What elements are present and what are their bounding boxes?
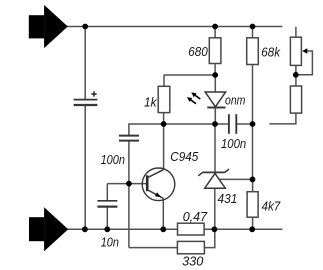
- node pot wiper junction: [293, 72, 299, 78]
- wire mid rail right part: [236, 123, 252, 125]
- svg-text:C945: C945: [170, 149, 199, 164]
- wire 680 top lead: [214, 27, 216, 38]
- wire emitter vertical: [162, 198, 164, 229]
- svg-text:100n: 100n: [221, 136, 246, 151]
- wire top rail: [67, 26, 283, 28]
- wire 4k7 top lead: [252, 179, 254, 191]
- wire bottom rail left segment: [67, 228, 178, 230]
- capacitor C4 10n plates: [97, 201, 117, 207]
- resistor 680: [209, 38, 221, 64]
- node TL431 ref divider: [250, 177, 256, 183]
- wire 68k top lead: [252, 27, 254, 38]
- wire 1k top lead: [163, 75, 165, 86]
- wire C4 10n bottom lead: [106, 207, 108, 230]
- wire mid rail left part with turn down to C2: [129, 124, 229, 136]
- wire 68k bottom lead down to ref node: [252, 65, 254, 180]
- resistor lower right body: [290, 86, 301, 113]
- node 4k7 bottom: [249, 226, 255, 232]
- resistor 68k: [247, 38, 259, 65]
- wire 680 bottom lead: [214, 64, 216, 76]
- node 680 top: [212, 24, 218, 30]
- node emitter bottom: [160, 226, 166, 232]
- svg-text:680: 680: [188, 44, 208, 59]
- wire collector vertical: [163, 124, 165, 170]
- wire pot wiper to lower junction: [296, 51, 313, 75]
- svg-text:0,47: 0,47: [183, 209, 208, 224]
- wire left rail upper: [84, 27, 86, 100]
- LED emission arrow 1: [191, 92, 200, 99]
- node LED cathode rail: [212, 121, 218, 127]
- wire bottom rail right segment: [204, 228, 282, 230]
- input terminal arrow top: [29, 5, 68, 48]
- node 10n bottom: [104, 226, 110, 232]
- wire TL431 ref to divider node: [219, 178, 253, 180]
- wire 431 anode lead: [214, 188, 216, 229]
- node sense resistor right: [212, 226, 218, 232]
- potentiometer upper body RP1: [290, 37, 301, 65]
- capacitor C1 plus sign: [91, 91, 96, 96]
- wire base: [107, 183, 147, 185]
- svg-text:68k: 68k: [261, 44, 281, 59]
- wire 330 right lead and riser: [204, 229, 214, 247]
- resistor 4k7: [247, 192, 258, 218]
- input terminal arrow bottom: [29, 207, 68, 251]
- node 68k top: [250, 24, 256, 30]
- wire pot bottom lead: [295, 65, 297, 74]
- node top-left junction: [82, 24, 88, 30]
- node bottom-left junction: [82, 226, 88, 232]
- svg-text:4k7: 4k7: [262, 198, 281, 213]
- wire C4 10n top lead: [106, 184, 108, 201]
- wire left rail lower: [84, 105, 86, 229]
- wire C2 bottom lead to base node: [128, 141, 130, 184]
- resistor 0.47: [178, 223, 205, 235]
- node collector / 1k: [161, 121, 167, 127]
- capacitor C2 100n plates: [119, 136, 139, 141]
- wire pot top lead: [295, 27, 297, 37]
- resistor 1k: [158, 86, 170, 112]
- resistor 330: [177, 241, 204, 253]
- node LED anode: [212, 72, 218, 78]
- svg-text:330: 330: [182, 253, 204, 268]
- wire 1k bottom / collector lead: [163, 113, 165, 124]
- capacitor C1 electrolytic plates: [74, 100, 98, 105]
- transistor Q1 C945: [142, 168, 175, 201]
- LED emission arrow 2: [187, 97, 196, 104]
- wire 330 left lead: [129, 247, 178, 249]
- node 68k / C3: [250, 121, 256, 127]
- svg-text:100n: 100n: [101, 152, 125, 167]
- wire lower right resistor top lead: [295, 75, 297, 86]
- wire LED cathode lead: [214, 107, 216, 124]
- wire lower right resistor bottom lead stub: [269, 113, 296, 124]
- potentiometer wiper arrow: [302, 48, 307, 54]
- svg-text:onm: onm: [225, 92, 246, 107]
- wire 330 left riser to base node: [128, 184, 130, 248]
- wire 431 cathode lead: [214, 124, 216, 172]
- wire 4k7 bottom lead: [252, 217, 254, 229]
- svg-text:431: 431: [218, 191, 238, 206]
- wire node 1k-top to LED anode: [164, 74, 215, 76]
- node base: [126, 181, 132, 187]
- LED optocoupler diode: [205, 92, 225, 108]
- wire LED anode lead: [214, 75, 216, 92]
- svg-text:10n: 10n: [101, 235, 119, 250]
- op-amp U1 TL431 shunt regulator: [198, 169, 229, 188]
- svg-text:1k: 1k: [144, 95, 158, 110]
- capacitor C3 100n horizontal plates: [229, 114, 236, 134]
